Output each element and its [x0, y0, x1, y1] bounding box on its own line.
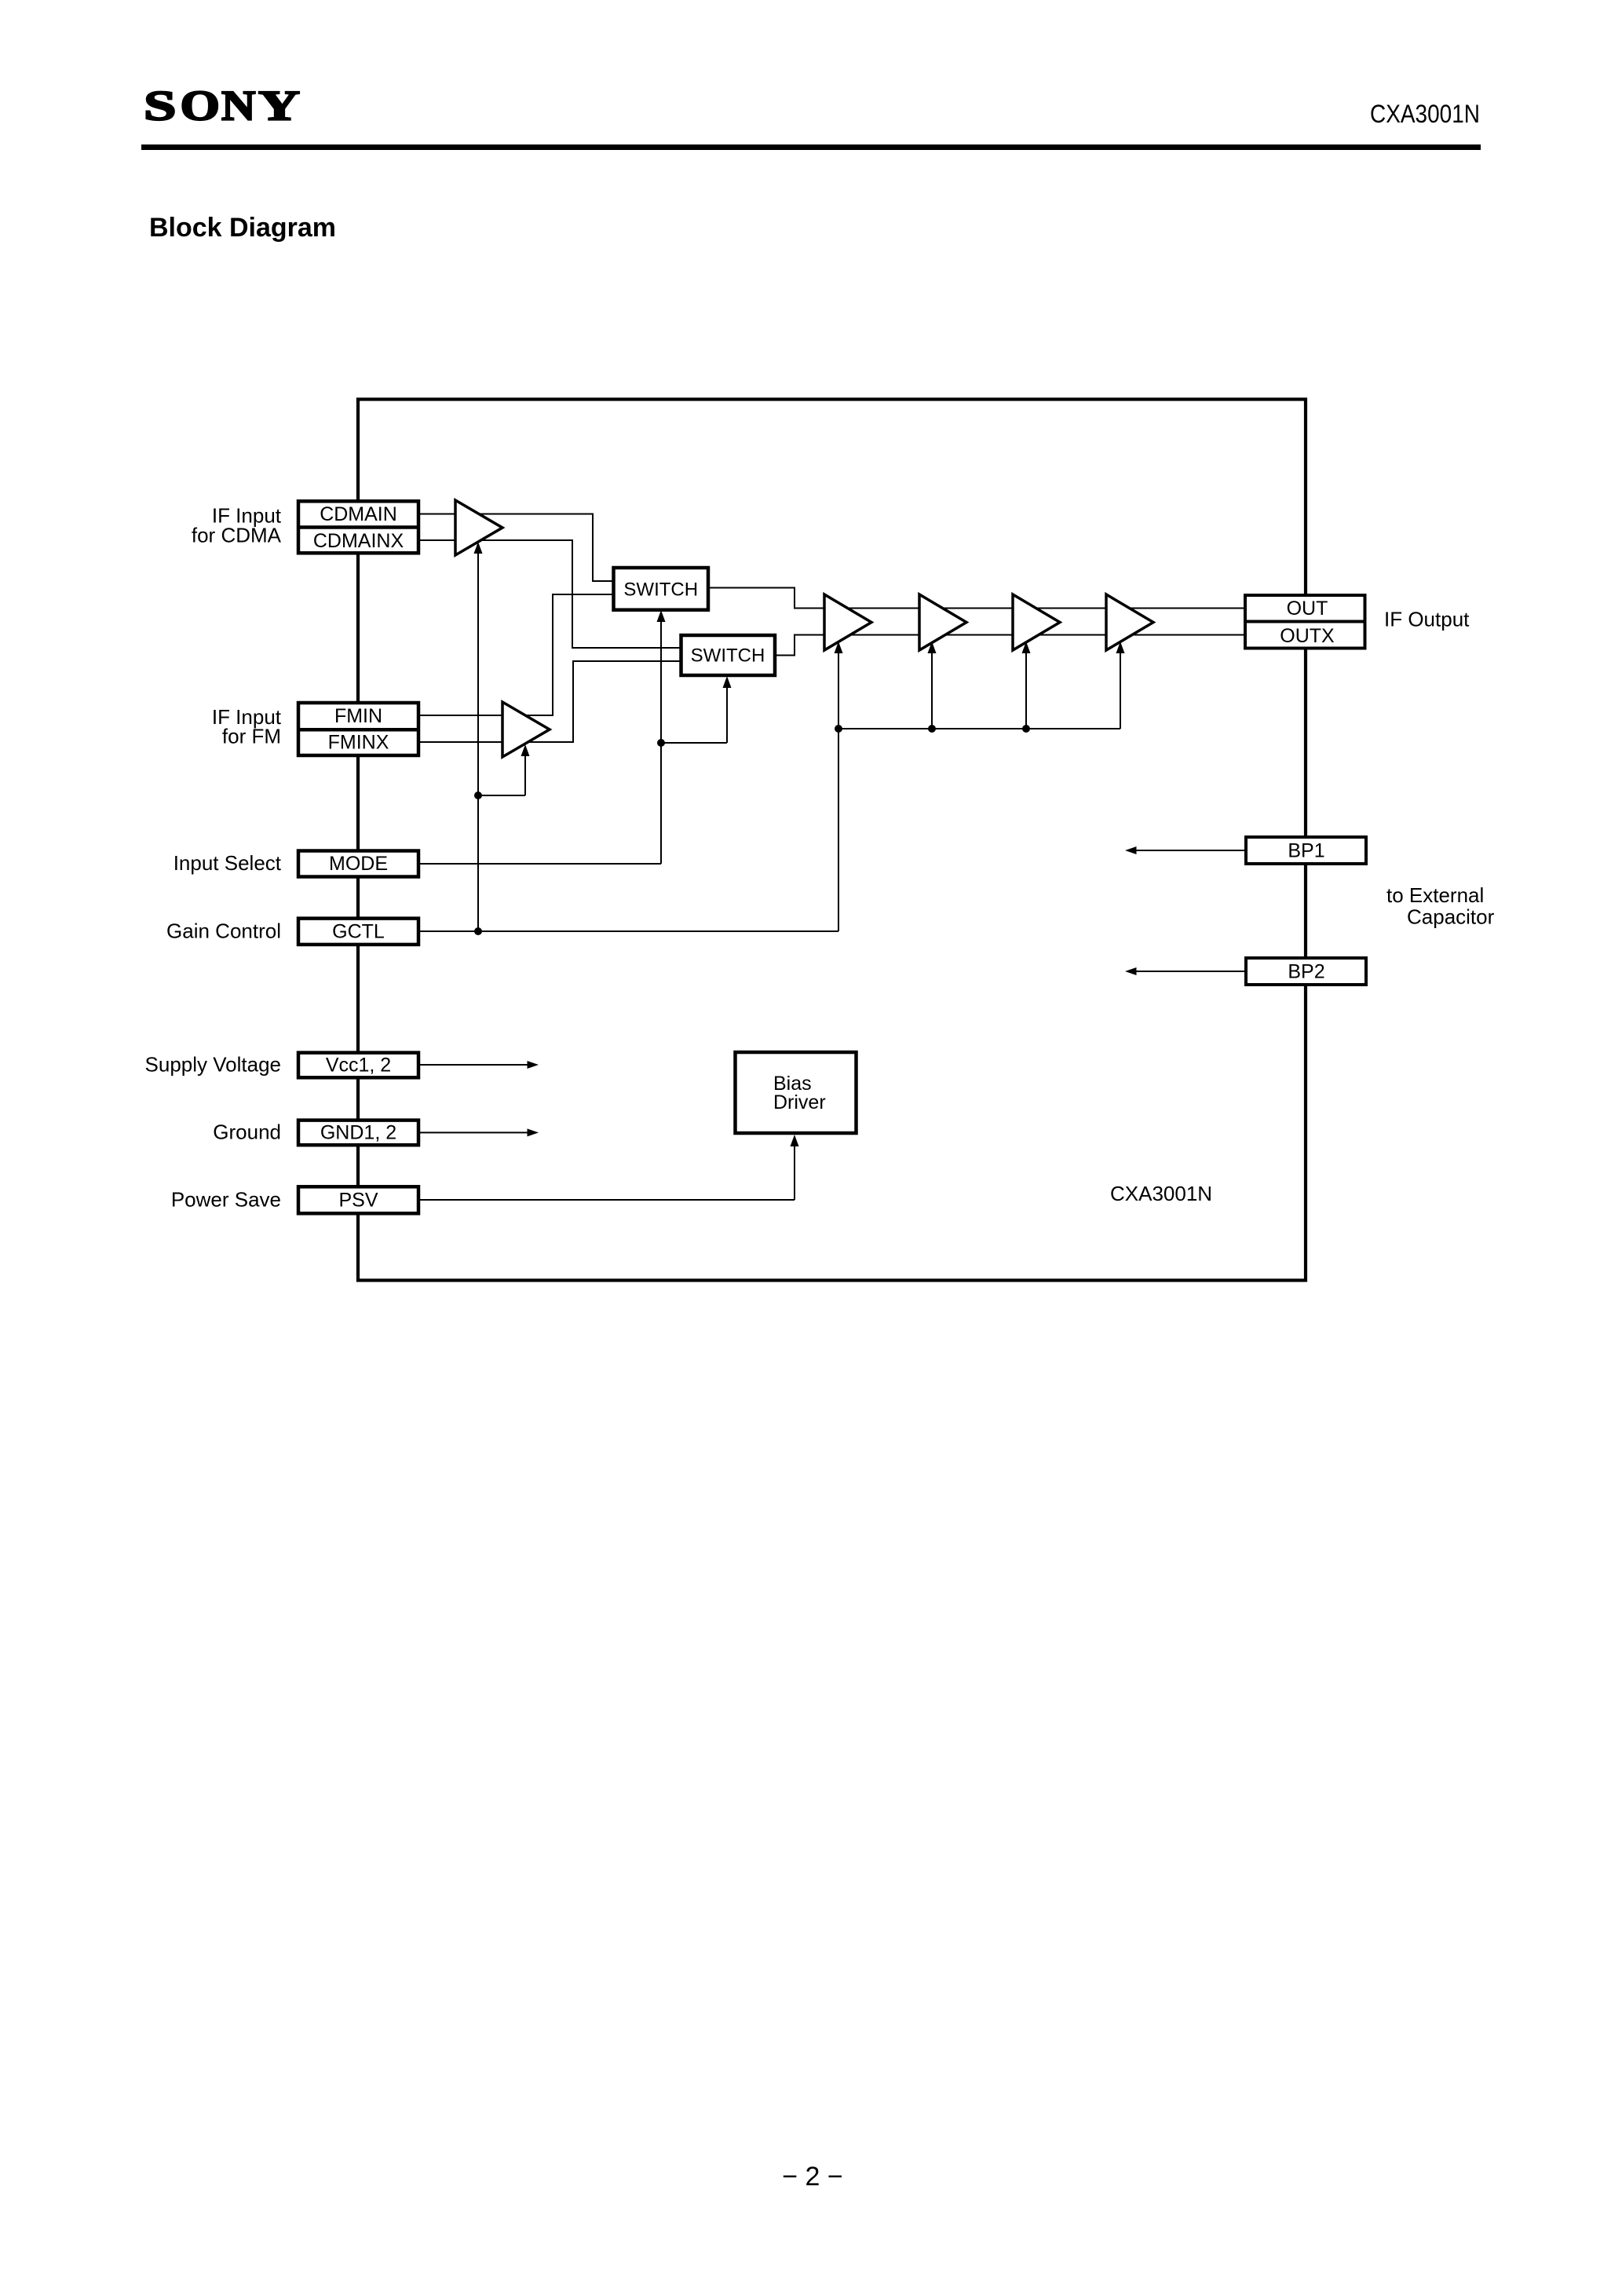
svg-text:Y: Y [258, 82, 300, 130]
svg-text:BP2: BP2 [1288, 961, 1324, 983]
svg-text:Power Save: Power Save [171, 1188, 281, 1212]
svg-text:CXA3001N: CXA3001N [1370, 100, 1480, 128]
svg-text:Block Diagram: Block Diagram [149, 213, 336, 243]
svg-text:OUTX: OUTX [1280, 625, 1335, 647]
svg-text:IF Output: IF Output [1384, 608, 1470, 631]
svg-text:to External: to External [1386, 883, 1484, 907]
svg-text:Vcc1, 2: Vcc1, 2 [326, 1055, 391, 1077]
svg-text:CXA3001N: CXA3001N [1110, 1182, 1212, 1205]
svg-text:SWITCH: SWITCH [691, 645, 765, 667]
svg-text:OUT: OUT [1287, 598, 1328, 620]
svg-text:Input Select: Input Select [174, 851, 282, 875]
svg-text:for FM: for FM [222, 725, 281, 748]
svg-text:CDMAIN: CDMAIN [320, 503, 397, 525]
svg-text:BP1: BP1 [1288, 840, 1324, 862]
svg-text:S: S [144, 82, 177, 130]
svg-text:Gain Control: Gain Control [166, 919, 281, 943]
svg-text:Driver: Driver [773, 1091, 826, 1113]
svg-text:FMINX: FMINX [328, 732, 389, 754]
svg-text:Capacitor: Capacitor [1407, 905, 1495, 929]
svg-text:Supply Voltage: Supply Voltage [145, 1053, 281, 1077]
svg-text:CDMAINX: CDMAINX [313, 530, 404, 552]
svg-text:Ground: Ground [213, 1121, 281, 1144]
svg-text:GND1, 2: GND1, 2 [320, 1122, 396, 1144]
svg-text:GCTL: GCTL [332, 921, 385, 943]
svg-text:for CDMA: for CDMA [192, 524, 282, 547]
svg-text:O: O [181, 82, 221, 130]
svg-text:SWITCH: SWITCH [623, 579, 698, 601]
svg-text:MODE: MODE [329, 853, 388, 875]
svg-text:− 2 −: − 2 − [782, 2162, 843, 2192]
svg-text:N: N [221, 82, 256, 130]
svg-text:PSV: PSV [338, 1190, 378, 1212]
svg-text:FMIN: FMIN [334, 705, 382, 727]
